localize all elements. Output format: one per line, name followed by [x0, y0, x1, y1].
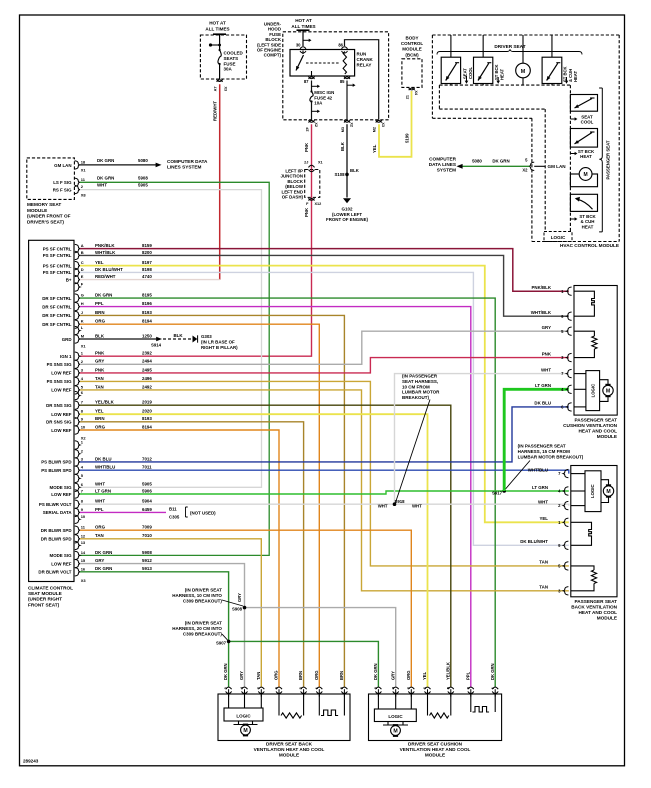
driver back resistor — [278, 694, 280, 716]
svg-text:PASSENGER SEAT: PASSENGER SEAT — [574, 599, 617, 604]
svg-text:GRY: GRY — [95, 359, 104, 364]
svg-text:5913: 5913 — [142, 566, 152, 571]
svg-text:X2: X2 — [314, 122, 318, 127]
svg-text:SERIAL DATA: SERIAL DATA — [43, 510, 73, 515]
svg-text:S917: S917 — [492, 491, 503, 496]
svg-text:2496: 2496 — [142, 376, 152, 381]
junction block bottom connector — [309, 198, 315, 200]
svg-text:WHT: WHT — [538, 499, 548, 504]
svg-text:MISC IGN: MISC IGN — [314, 90, 334, 95]
wire PPL 6459 row 9X3 not used stub — [80, 511, 166, 513]
svg-text:M2: M2 — [373, 127, 377, 132]
bold LT GRN 5906 from S917 to passenger cushion pin 4 — [504, 389, 569, 491]
svg-text:7012: 7012 — [142, 456, 152, 461]
svg-text:ORG: ORG — [274, 670, 279, 680]
battery feed bar - hot at all times (underhood) — [297, 29, 310, 31]
svg-text:SEATS: SEATS — [224, 56, 239, 61]
svg-text:YEL: YEL — [95, 260, 104, 265]
indicator - passenger seat (circle M on box) — [570, 174, 597, 187]
fuse COOLED SEATS FUSE 30A — [218, 50, 221, 64]
svg-text:FUSE 42: FUSE 42 — [314, 95, 332, 100]
wire DK GRN 5080 to computer data lines (HVAC) — [458, 165, 530, 167]
wire RED/WHT 4740 row E horizontal — [80, 279, 220, 281]
svg-text:PASSENGER SEAT: PASSENGER SEAT — [574, 418, 617, 423]
svg-text:30: 30 — [296, 43, 301, 48]
svg-text:& CUH: & CUH — [568, 69, 573, 82]
svg-text:7010: 7010 — [142, 533, 152, 538]
svg-text:10: 10 — [81, 425, 86, 430]
svg-text:SEAT MODULE: SEAT MODULE — [28, 591, 62, 596]
wire DK GRN 8195 row G to driver cushion pin 1 — [80, 298, 495, 687]
driver cushion heater — [470, 694, 472, 712]
driver cushion resistor — [427, 694, 429, 716]
svg-text:DR SF CNTRL: DR SF CNTRL — [42, 322, 72, 327]
passenger seat back ventilation heat and cool module box — [571, 466, 617, 597]
svg-text:BRN: BRN — [95, 310, 105, 315]
wire WHT/BLK 8200 row B to passenger cushion pin 9 — [80, 255, 569, 316]
wire WHT 5905 memory to CCS pin 6 — [80, 190, 262, 488]
svg-text:X3: X3 — [224, 87, 228, 92]
svg-text:LOGIC: LOGIC — [551, 235, 566, 240]
svg-text:13: 13 — [81, 540, 86, 545]
svg-text:2495: 2495 — [142, 367, 152, 372]
svg-text:IGN 1: IGN 1 — [60, 354, 72, 359]
svg-text:FRONT OF ENGINE): FRONT OF ENGINE) — [326, 217, 368, 222]
svg-text:LUMBAR MOTOR BREAKOUT): LUMBAR MOTOR BREAKOUT) — [518, 454, 584, 459]
svg-text:M: M — [521, 69, 526, 75]
svg-text:8196: 8196 — [142, 301, 152, 306]
wire DK GRN 5913 S907 branch to driver cushion pin 2 — [229, 641, 379, 687]
svg-text:WHT: WHT — [95, 482, 105, 487]
svg-text:18: 18 — [81, 159, 86, 164]
svg-text:X2: X2 — [350, 122, 354, 127]
svg-text:PS SF CNTRL: PS SF CNTRL — [43, 246, 72, 251]
svg-text:TAN: TAN — [95, 376, 104, 381]
svg-text:30A: 30A — [224, 67, 233, 72]
svg-text:X1: X1 — [318, 161, 323, 165]
svg-text:BLK: BLK — [95, 333, 105, 338]
svg-text:PNK/BLK: PNK/BLK — [95, 243, 115, 248]
svg-text:DRIVER SEAT: DRIVER SEAT — [494, 44, 525, 49]
relay internal dashed link — [306, 62, 339, 64]
wire DK GRN 5913 row 16 to driver back pin 2 via S907 — [80, 572, 229, 687]
svg-text:BRN: BRN — [95, 416, 105, 421]
wire PNK ignition feed - fuse block to CCS row 1 — [80, 124, 312, 356]
svg-text:X1: X1 — [81, 344, 87, 349]
ground G102 — [343, 198, 351, 203]
svg-text:DK GRN: DK GRN — [95, 293, 112, 298]
svg-text:DK GRN: DK GRN — [95, 566, 112, 571]
wire RED/WHT 4740 from IP fuse to CCS module pin E — [219, 84, 221, 279]
svg-text:S914: S914 — [151, 343, 162, 348]
svg-text:FRONT SEAT): FRONT SEAT) — [28, 602, 60, 607]
wire ORG 7009 row 11 to driver cushion pin 7 — [80, 530, 411, 687]
passenger back heater element — [571, 522, 592, 545]
switch - driver seat back and cushion heat — [551, 35, 553, 57]
svg-text:PASSENGER SEAT: PASSENGER SEAT — [606, 140, 611, 179]
svg-text:2492: 2492 — [142, 384, 152, 389]
svg-text:HEAT AND COOL: HEAT AND COOL — [578, 610, 617, 615]
svg-text:LOGIC: LOGIC — [591, 384, 596, 398]
wire 85 output — [346, 81, 348, 120]
wire ORG 8194 row 10 to driver back pin 6 — [80, 430, 279, 687]
svg-text:LT GRN: LT GRN — [95, 488, 111, 493]
svg-text:TAN: TAN — [95, 384, 104, 389]
svg-text:GRY: GRY — [239, 671, 244, 680]
svg-text:PS BLWR VOLT: PS BLWR VOLT — [39, 502, 72, 507]
svg-text:PS SF CNTRL: PS SF CNTRL — [43, 253, 72, 258]
svg-text:YEL: YEL — [95, 409, 104, 414]
svg-text:21: 21 — [406, 95, 410, 99]
switch - passenger seat cool — [570, 95, 597, 112]
svg-text:85: 85 — [340, 79, 345, 84]
svg-text:YEL: YEL — [372, 144, 377, 153]
svg-text:DR BLWR SPD: DR BLWR SPD — [41, 537, 72, 542]
svg-text:87: 87 — [304, 79, 309, 84]
battery feed bar - hot at all times (IP) — [213, 33, 226, 35]
svg-text:CUSHION VENTILATION: CUSHION VENTILATION — [563, 423, 617, 428]
svg-text:PNK: PNK — [304, 207, 309, 217]
svg-text:5906: 5906 — [142, 488, 152, 493]
svg-text:BRN: BRN — [298, 671, 303, 680]
svg-text:DR SNS SIG: DR SNS SIG — [46, 420, 72, 425]
passenger seat bracket — [599, 88, 602, 232]
svg-text:2392: 2392 — [142, 351, 152, 356]
memory seat module (dashed box) — [27, 158, 75, 200]
svg-text:5908: 5908 — [138, 175, 148, 180]
svg-text:ORG: ORG — [95, 319, 106, 324]
switch - passenger seat back heat — [570, 129, 597, 148]
wire YEL/BLK 2019 row 7 to driver cushion pin 5 — [80, 405, 451, 687]
body control module BCM (dashed box) — [402, 59, 422, 88]
svg-text:GM LAN: GM LAN — [54, 163, 71, 168]
svg-text:RED/WHT: RED/WHT — [212, 101, 217, 121]
wire TAN 2496 row 4 to passenger back pin 5 — [80, 381, 569, 566]
svg-text:VENTILATION HEAT AND COOL: VENTILATION HEAT AND COOL — [254, 747, 325, 752]
svg-text:14: 14 — [81, 550, 86, 555]
svg-text:M: M — [606, 489, 610, 495]
arrow to st bck heat label — [570, 153, 575, 155]
svg-text:BLK: BLK — [173, 333, 183, 338]
svg-text:LOW REF: LOW REF — [51, 388, 72, 393]
svg-text:K: K — [81, 319, 84, 324]
svg-text:YEL: YEL — [422, 671, 427, 680]
svg-text:PS SF CNTRL: PS SF CNTRL — [43, 263, 72, 268]
svg-text:ALL TIMES: ALL TIMES — [205, 27, 229, 32]
wire coil 86 feed loop to yellow output — [345, 40, 379, 120]
svg-text:5199: 5199 — [404, 133, 409, 143]
driver seat back ventilation heat and cool module box — [218, 694, 350, 741]
driver back blower motor — [238, 721, 240, 725]
driver cushion logic box — [374, 709, 416, 722]
driver back heater — [318, 694, 320, 716]
svg-text:MODULE: MODULE — [597, 434, 617, 439]
svg-text:HARNESS, 10 CM INTO: HARNESS, 10 CM INTO — [172, 593, 222, 598]
svg-text:8159: 8159 — [142, 243, 152, 248]
HVAC control module outline (dashed) — [432, 34, 619, 36]
svg-text:HEAT AND COOL: HEAT AND COOL — [578, 429, 617, 434]
svg-text:HEAT: HEAT — [500, 68, 505, 80]
svg-text:7011: 7011 — [142, 465, 152, 470]
wire DK BLU/WHT 8198 row D to passenger back pin 9 — [80, 272, 569, 545]
svg-text:10: 10 — [81, 514, 86, 519]
svg-text:LOW REF: LOW REF — [51, 492, 72, 497]
wire GRY 5912 S908 branch to driver cushion pin 4 — [245, 608, 396, 687]
svg-text:DK GRN: DK GRN — [373, 663, 378, 680]
svg-text:2F: 2F — [305, 126, 309, 131]
svg-text:2019: 2019 — [142, 400, 152, 405]
svg-text:6459: 6459 — [142, 507, 152, 512]
svg-text:YEL/BLK: YEL/BLK — [95, 400, 115, 405]
driver back logic box — [224, 708, 263, 721]
svg-text:TAN: TAN — [95, 533, 104, 538]
svg-text:E: E — [81, 274, 84, 279]
svg-text:BRN: BRN — [339, 671, 344, 680]
svg-text:A: A — [81, 243, 84, 248]
driver cushion internal wires to logic — [377, 694, 379, 709]
svg-text:15: 15 — [81, 558, 86, 563]
svg-text:HOT AT: HOT AT — [209, 21, 226, 26]
svg-text:8195: 8195 — [142, 293, 152, 298]
svg-text:X1: X1 — [81, 168, 87, 173]
svg-text:DK BLU/WHT: DK BLU/WHT — [95, 267, 123, 272]
svg-text:COOL: COOL — [468, 66, 473, 79]
svg-text:C309 BREAKOUT): C309 BREAKOUT) — [183, 631, 223, 636]
svg-text:WHT: WHT — [97, 183, 107, 188]
branch arrow on feed 30 — [303, 39, 310, 41]
svg-text:5080: 5080 — [472, 158, 482, 163]
left IP junction block (dashed) — [305, 170, 320, 198]
wire DK GRN 5080 memory to computer data lines — [80, 164, 156, 166]
svg-text:5080: 5080 — [138, 158, 148, 163]
svg-text:CONTROL: CONTROL — [401, 41, 423, 46]
svg-text:B11: B11 — [169, 507, 177, 512]
svg-text:COOL: COOL — [581, 120, 594, 125]
svg-text:CRANK: CRANK — [357, 57, 374, 62]
wire ORG 8194 row K to driver back pin 1 — [80, 324, 319, 687]
svg-text:5905: 5905 — [138, 183, 148, 188]
svg-text:BLK: BLK — [350, 168, 360, 173]
svg-text:PNK/BLK: PNK/BLK — [531, 285, 551, 290]
wire WHT/BLU 7011 row 4X3 to passenger back pin 7 — [80, 470, 569, 473]
junction block top connector — [309, 165, 315, 167]
svg-text:DRIVER SEAT BACK: DRIVER SEAT BACK — [266, 742, 313, 747]
svg-text:S907: S907 — [216, 641, 227, 646]
arrow to seat cool label — [570, 118, 575, 120]
svg-text:HEAT: HEAT — [573, 70, 578, 82]
svg-text:WHT/BLU: WHT/BLU — [95, 465, 115, 470]
svg-text:RIGHT B PILLAR): RIGHT B PILLAR) — [201, 345, 238, 350]
svg-text:HEAT: HEAT — [580, 154, 592, 159]
svg-text:5912: 5912 — [142, 558, 152, 563]
svg-text:DK GRN: DK GRN — [97, 175, 114, 180]
svg-text:PNK: PNK — [95, 351, 105, 356]
wire YEL 5199 from fuse block to BCM — [379, 91, 412, 157]
svg-text:B: B — [81, 250, 84, 255]
svg-text:ORG: ORG — [95, 525, 106, 530]
svg-text:LOW REF: LOW REF — [51, 428, 72, 433]
svg-text:GRY: GRY — [237, 593, 242, 602]
svg-text:RELAY: RELAY — [357, 63, 372, 68]
wire PNK 2495 row 3 to passenger cushion pin 3 — [80, 358, 569, 373]
svg-text:VENTILATION HEAT AND COOL: VENTILATION HEAT AND COOL — [400, 747, 471, 752]
svg-text:S908: S908 — [232, 607, 243, 612]
svg-text:DK BLU: DK BLU — [534, 401, 551, 406]
passenger seat cushion ventilation heat and cool module box — [574, 286, 617, 416]
svg-text:C309 BREAKOUT): C309 BREAKOUT) — [183, 598, 223, 603]
wire LT GRN 5906 row 7X3 to passenger back pin 4 via S917 — [80, 491, 569, 494]
HVAC internal bus corridor (dashed) — [439, 84, 570, 86]
svg-text:1250: 1250 — [142, 333, 152, 338]
svg-text:WHT/BLK: WHT/BLK — [95, 250, 116, 255]
passenger cushion blower motor — [600, 380, 608, 402]
svg-text:BODY: BODY — [405, 36, 418, 41]
svg-text:C305: C305 — [169, 515, 180, 520]
wire YEL 8197 row C to passenger back pin 1 — [80, 266, 569, 523]
svg-text:LT GRN: LT GRN — [532, 485, 548, 490]
wire WHT 5904 row 8X3 to passenger back pin 2 via S918 — [80, 504, 569, 505]
svg-text:X8: X8 — [81, 193, 87, 198]
svg-text:PNK: PNK — [95, 367, 105, 372]
CCS module pin rows - brackets, pin ids, left labels, wire name/number labels — [75, 244, 80, 252]
svg-text:WHT: WHT — [95, 499, 105, 504]
svg-text:DRIVER SEAT CUSHION: DRIVER SEAT CUSHION — [408, 742, 463, 747]
svg-text:G102: G102 — [341, 207, 353, 212]
svg-text:CLIMATE CONTROL: CLIMATE CONTROL — [28, 586, 73, 591]
wire BLK 1250 row M to ground G303 via S914 — [80, 338, 157, 340]
svg-text:GM LAN: GM LAN — [548, 164, 567, 169]
wire YEL 2020 row 8 to driver cushion pin 6 — [80, 414, 428, 687]
splice S108 — [345, 173, 349, 177]
wire TAN 7010 row 12 to driver back pin 7 — [80, 539, 261, 687]
svg-text:DR BLWR SPD: DR BLWR SPD — [41, 528, 72, 533]
wire DK BLU 7012 row 3X3 to passenger cushion pin 6 — [80, 407, 569, 462]
svg-text:M: M — [243, 728, 247, 734]
svg-text:LOGIC: LOGIC — [590, 484, 595, 498]
svg-text:(IN PASSENGER: (IN PASSENGER — [402, 374, 438, 379]
svg-text:5904: 5904 — [142, 499, 152, 504]
svg-text:TAN: TAN — [539, 560, 548, 565]
svg-text:GRY: GRY — [542, 325, 551, 330]
svg-text:HEAT: HEAT — [582, 224, 594, 229]
HVAC GM LAN pin connector — [529, 162, 534, 170]
svg-text:LUMBAR MOTOR: LUMBAR MOTOR — [402, 390, 440, 395]
switch - passenger seat back and cushion heat — [570, 194, 597, 211]
svg-text:(IN PASSENGER SEAT: (IN PASSENGER SEAT — [518, 444, 566, 449]
svg-text:16: 16 — [81, 566, 86, 571]
fuse MISC IGN FUSE 42 10A — [310, 92, 313, 102]
svg-text:PS BLWR SPD: PS BLWR SPD — [41, 468, 71, 473]
svg-text:H: H — [81, 301, 84, 306]
svg-text:2020: 2020 — [142, 409, 152, 414]
driver seat cushion ventilation heat and cool module box — [369, 694, 502, 741]
relay switch blade 30-87 — [302, 51, 304, 55]
svg-text:8198: 8198 — [142, 267, 152, 272]
switch - driver seat back heat — [482, 35, 484, 57]
svg-text:DRIVER'S SEAT): DRIVER'S SEAT) — [27, 219, 64, 224]
svg-text:WHT: WHT — [541, 367, 551, 372]
svg-text:GRY: GRY — [390, 671, 395, 680]
svg-text:HOT AT: HOT AT — [295, 18, 312, 23]
svg-text:DK BLU/WHT: DK BLU/WHT — [520, 539, 548, 544]
svg-text:8200: 8200 — [142, 250, 152, 255]
svg-text:M3: M3 — [341, 127, 345, 132]
relay box RUN CRANK RELAY — [290, 50, 355, 77]
svg-text:WHT/BLK: WHT/BLK — [531, 310, 552, 315]
svg-text:8194: 8194 — [142, 319, 152, 324]
passenger cushion resistor — [574, 331, 594, 357]
svg-text:LOW REF: LOW REF — [51, 561, 72, 566]
HVAC logic box — [544, 232, 572, 242]
wire DK GRN 5908 memory to CCS pin 14 — [80, 182, 269, 555]
svg-text:B+: B+ — [66, 277, 72, 282]
svg-text:TAN: TAN — [539, 585, 548, 590]
svg-text:X3: X3 — [381, 122, 385, 127]
svg-text:G: G — [81, 293, 84, 298]
svg-text:MODULE: MODULE — [27, 208, 47, 213]
svg-text:WHT: WHT — [412, 504, 422, 509]
passenger back blower motor — [601, 480, 609, 503]
IP fuse block (dashed box) — [200, 35, 246, 79]
wire TAN 2492 row 5 to passenger back pin 3 — [80, 390, 569, 591]
driver cushion pins - brackets, rotated labels — [375, 687, 381, 689]
svg-text:RED/WHT: RED/WHT — [95, 274, 116, 279]
svg-text:X2: X2 — [522, 168, 528, 173]
svg-text:8193: 8193 — [142, 416, 152, 421]
svg-text:8194: 8194 — [142, 424, 152, 429]
splice S907 with note — [227, 640, 231, 644]
passenger cushion pins and labels — [567, 287, 572, 295]
splice S917 with note — [502, 489, 506, 493]
svg-text:FUSE: FUSE — [224, 61, 236, 66]
svg-text:PNK: PNK — [542, 351, 552, 356]
svg-text:DK GRN: DK GRN — [95, 550, 112, 555]
driver back pins - brackets, rotated labels — [226, 687, 232, 689]
svg-text:(IN DRIVER SEAT: (IN DRIVER SEAT — [185, 621, 222, 626]
svg-text:BLK: BLK — [340, 141, 345, 151]
svg-text:MODULE: MODULE — [279, 753, 299, 758]
svg-text:(NOT USED): (NOT USED) — [190, 511, 216, 516]
svg-text:(BCM): (BCM) — [405, 52, 419, 57]
svg-text:S108: S108 — [334, 172, 345, 177]
wire WHT 5904 S918 branch to passenger cushion pin 7 — [395, 374, 569, 505]
svg-text:MODE SIG: MODE SIG — [50, 553, 73, 558]
svg-text:D: D — [81, 267, 84, 272]
svg-text:DATA LINES: DATA LINES — [429, 162, 456, 167]
svg-text:LS F SIG: LS F SIG — [53, 180, 72, 185]
svg-text:C: C — [81, 260, 84, 265]
driver cushion blower motor — [387, 722, 389, 726]
svg-text:ORG: ORG — [406, 670, 411, 680]
svg-text:HARNESS, 15 CM FROM: HARNESS, 15 CM FROM — [518, 449, 571, 454]
svg-text:10 CM FROM: 10 CM FROM — [402, 384, 430, 389]
svg-text:G303: G303 — [201, 334, 212, 339]
svg-text:COMPUTER: COMPUTER — [429, 156, 456, 161]
svg-text:2J: 2J — [304, 161, 308, 165]
climate control seat module box — [29, 240, 74, 581]
svg-text:DR BLWR VOLT: DR BLWR VOLT — [38, 570, 71, 575]
svg-text:7009: 7009 — [142, 525, 152, 530]
passenger cushion logic box — [586, 371, 600, 411]
svg-text:GRD: GRD — [62, 337, 72, 342]
svg-text:WHT/BLU: WHT/BLU — [528, 467, 548, 472]
svg-text:5908: 5908 — [142, 550, 152, 555]
svg-text:J: J — [81, 310, 83, 315]
svg-text:X12: X12 — [315, 202, 322, 206]
wire GRY 5912 row 15 to driver back pin 4 via S908 — [80, 564, 245, 687]
svg-text:DK GRN: DK GRN — [492, 158, 509, 163]
svg-text:DK GRN: DK GRN — [97, 158, 114, 163]
